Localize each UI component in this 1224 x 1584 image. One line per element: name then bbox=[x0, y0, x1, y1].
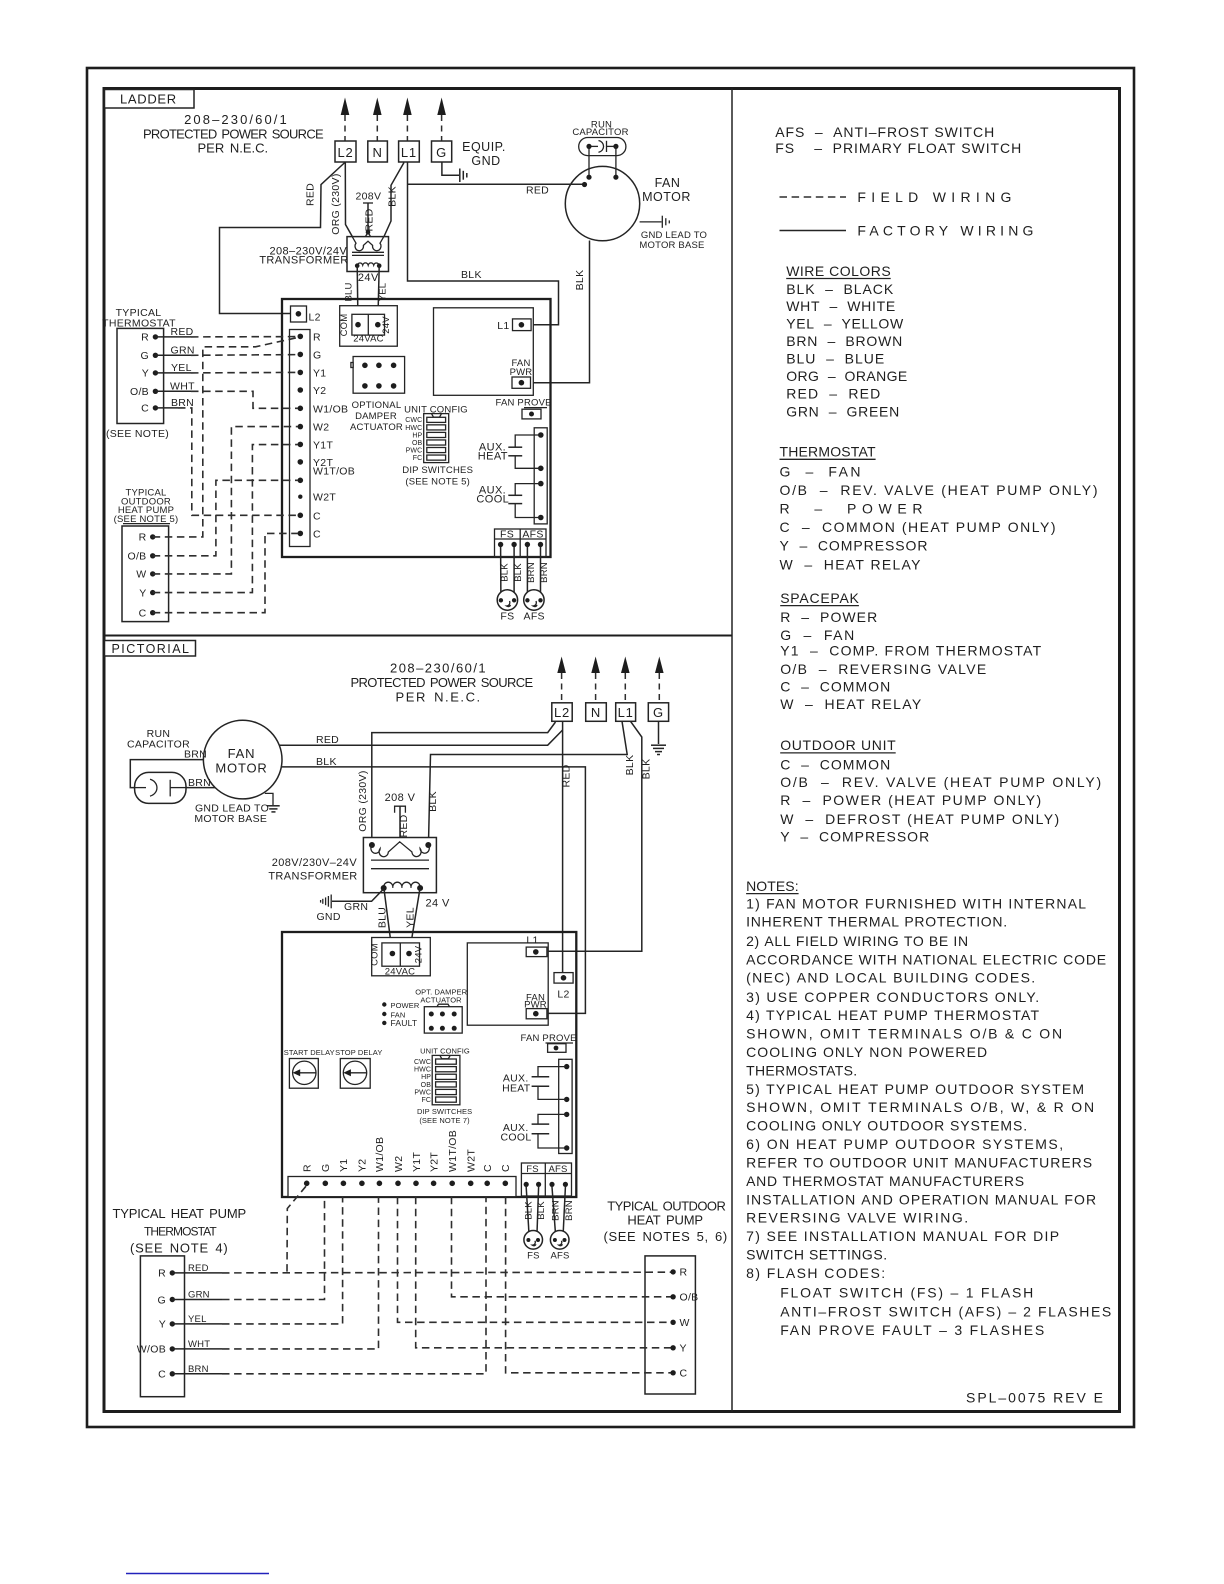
svg-text:BLU – BLUE: BLU – BLUE bbox=[786, 351, 884, 367]
wire YEL transformer to 24VAC 24V bbox=[378, 266, 379, 325]
inner border frame bbox=[104, 89, 1120, 1412]
AUX. COOL label bbox=[476, 484, 509, 505]
LADDER section label box bbox=[105, 90, 195, 109]
BLK BLK BRN BRN wire labels (rotated) bbox=[499, 562, 550, 583]
thermostat terminal O/B (ladder) bbox=[130, 386, 158, 398]
board terminal Y1T (ladder) bbox=[298, 439, 334, 451]
svg-text:BLK: BLK bbox=[387, 186, 399, 207]
thermostat terminal R (ladder) bbox=[141, 332, 158, 344]
svg-text:HP: HP bbox=[421, 1074, 431, 1081]
svg-text:N: N bbox=[372, 145, 382, 160]
svg-text:3) USE COPPER CONDUCTORS ONLY.: 3) USE COPPER CONDUCTORS ONLY. bbox=[746, 989, 1039, 1005]
power feed arrow at x=345.0 bbox=[341, 98, 350, 142]
fan motor circle (pictorial) bbox=[203, 720, 282, 799]
board terminal strip (pictorial) bbox=[288, 1177, 516, 1197]
svg-text:OPTIONAL: OPTIONAL bbox=[352, 400, 402, 411]
svg-text:C – COMMON: C – COMMON bbox=[780, 679, 890, 695]
svg-text:(SEE NOTE): (SEE NOTE) bbox=[106, 428, 169, 440]
board terminal C (ladder) bbox=[298, 528, 322, 540]
svg-text:WIRE COLORS: WIRE COLORS bbox=[786, 263, 891, 279]
wire RED branch to fan motor bbox=[408, 183, 584, 185]
svg-text:C: C bbox=[500, 1164, 512, 1172]
svg-text:BRN: BRN bbox=[526, 562, 537, 583]
svg-text:R – POWER (HEAT PUMP ONLY): R – POWER (HEAT PUMP ONLY) bbox=[780, 792, 1041, 808]
board terminal W2T (ladder) bbox=[298, 492, 336, 504]
svg-text:FS: FS bbox=[526, 1164, 539, 1175]
svg-text:Y1T: Y1T bbox=[313, 439, 333, 451]
svg-text:208V/230V–24V: 208V/230V–24V bbox=[272, 857, 358, 869]
TYPICAL OUTDOOR HEAT PUMP title (ladder) bbox=[114, 488, 179, 525]
svg-text:BLK: BLK bbox=[513, 563, 524, 582]
thermostat terminal R (pictorial) bbox=[158, 1268, 175, 1280]
svg-text:BLK: BLK bbox=[641, 759, 653, 780]
float switch FS bbox=[497, 590, 517, 623]
outdoor terminal O/B (pictorial) bbox=[670, 1292, 698, 1304]
board terminal Y1T (pictorial) bbox=[411, 1152, 423, 1187]
wire G box to equipment ground bbox=[442, 163, 459, 176]
svg-text:Y1T: Y1T bbox=[411, 1152, 423, 1172]
svg-text:ORG (230V): ORG (230V) bbox=[357, 770, 369, 831]
svg-text:RED: RED bbox=[561, 764, 573, 787]
svg-text:Y: Y bbox=[159, 1319, 166, 1331]
field wire outdoor R to board R bbox=[153, 338, 298, 537]
svg-text:W1/OB: W1/OB bbox=[374, 1137, 386, 1172]
STOP DELAY dial bbox=[335, 1048, 382, 1088]
svg-text:BLK: BLK bbox=[427, 791, 439, 812]
svg-text:MOTOR: MOTOR bbox=[642, 190, 691, 204]
208V open terminal bracket bbox=[395, 806, 406, 813]
power terminal box L2 (pictorial) bbox=[552, 703, 572, 722]
svg-text:5) TYPICAL HEAT PUMP OUTDOOR S: 5) TYPICAL HEAT PUMP OUTDOOR SYSTEM bbox=[746, 1081, 1084, 1097]
svg-text:UNIT CONFIG: UNIT CONFIG bbox=[420, 1046, 470, 1055]
svg-text:BLK: BLK bbox=[524, 1201, 535, 1220]
TYPICAL HEAT PUMP THERMOSTAT title bbox=[113, 1206, 247, 1256]
svg-text:R: R bbox=[141, 332, 149, 344]
wire ORG(230V) from L2 to transformer bbox=[345, 163, 352, 237]
svg-text:G: G bbox=[320, 1164, 332, 1172]
outdoor terminal C (pictorial) bbox=[670, 1368, 687, 1380]
svg-text:STOP DELAY: STOP DELAY bbox=[335, 1048, 382, 1057]
svg-text:FS – PRIMARY FLOAT SWITCH: FS – PRIMARY FLOAT SWITCH bbox=[775, 140, 1021, 156]
wire RED motor to L2 drop (pictorial) bbox=[280, 730, 563, 745]
svg-text:G: G bbox=[158, 1294, 166, 1306]
outdoor terminal R (pictorial) bbox=[670, 1267, 687, 1279]
svg-text:R: R bbox=[139, 532, 147, 544]
svg-text:FS: FS bbox=[500, 529, 514, 541]
legend: field wiring sample bbox=[780, 196, 847, 198]
board terminal W1/OB (ladder) bbox=[298, 403, 349, 415]
POWER FAN FAULT status LEDs bbox=[382, 1001, 420, 1028]
svg-text:HWC: HWC bbox=[405, 425, 422, 432]
svg-text:RED: RED bbox=[305, 183, 317, 206]
run capacitor (pictorial) bbox=[135, 772, 186, 803]
svg-text:COOL: COOL bbox=[476, 493, 509, 505]
svg-text:6) ON HEAT PUMP OUTDOOR SYSTEM: 6) ON HEAT PUMP OUTDOOR SYSTEMS, bbox=[746, 1136, 1063, 1152]
svg-text:PICTORIAL: PICTORIAL bbox=[112, 642, 190, 656]
wire YEL to 24VAC 24V (pictorial) bbox=[409, 889, 420, 954]
svg-text:208–230/60/1: 208–230/60/1 bbox=[184, 112, 287, 127]
svg-text:W – DEFROST (HEAT PUMP ONLY): W – DEFROST (HEAT PUMP ONLY) bbox=[780, 811, 1059, 827]
svg-text:Y1: Y1 bbox=[338, 1159, 350, 1172]
board terminal W2T (pictorial) bbox=[466, 1149, 478, 1186]
svg-text:Y: Y bbox=[139, 587, 146, 599]
wire BLK motor to FAN PWR (pictorial) bbox=[282, 767, 586, 1014]
svg-text:Y2: Y2 bbox=[313, 385, 326, 397]
power feed arrow at x=377.3 bbox=[373, 98, 382, 142]
svg-text:(SEE NOTES 5, 6): (SEE NOTES 5, 6) bbox=[604, 1229, 728, 1244]
board terminal C (pictorial) bbox=[500, 1164, 512, 1186]
svg-text:W2T: W2T bbox=[466, 1149, 478, 1172]
wire BLK from L1 down to board L1 terminal bbox=[408, 163, 559, 325]
wire BLK from L1 to transformer bbox=[384, 163, 404, 237]
svg-text:R – POWER: R – POWER bbox=[780, 609, 877, 625]
svg-text:Y1: Y1 bbox=[313, 367, 326, 379]
svg-text:O/B – REVERSING VALVE: O/B – REVERSING VALVE bbox=[780, 661, 986, 677]
power terminal box G (pictorial) bbox=[648, 703, 668, 722]
svg-text:REFER TO OUTDOOR UNIT MANUFACT: REFER TO OUTDOOR UNIT MANUFACTURERS bbox=[746, 1155, 1092, 1171]
svg-text:L2: L2 bbox=[554, 705, 570, 720]
svg-text:ACTUATOR: ACTUATOR bbox=[420, 995, 462, 1004]
wire BLK L1 to board L1 terminal (pictorial) bbox=[548, 721, 642, 951]
outer border frame bbox=[87, 68, 1134, 1427]
wire RED L2 down to board L2 terminal (pictorial) bbox=[562, 721, 564, 972]
svg-text:ACTUATOR: ACTUATOR bbox=[350, 422, 403, 433]
svg-text:SPL–0075 REV E: SPL–0075 REV E bbox=[966, 1390, 1103, 1406]
FS switch wires (pictorial) bbox=[526, 1187, 538, 1239]
svg-text:Y: Y bbox=[142, 368, 149, 380]
svg-text:WHT – WHITE: WHT – WHITE bbox=[786, 298, 895, 314]
field wire BRN thermostat C to board C bbox=[155, 408, 297, 515]
outdoor terminal Y (pictorial) bbox=[670, 1343, 686, 1355]
svg-text:24VAC: 24VAC bbox=[385, 967, 415, 978]
svg-text:COM: COM bbox=[339, 314, 350, 337]
svg-text:CAPACITOR: CAPACITOR bbox=[127, 739, 190, 751]
svg-text:24VAC: 24VAC bbox=[353, 334, 383, 345]
svg-text:L1: L1 bbox=[526, 935, 538, 947]
svg-text:OUTDOOR UNIT: OUTDOOR UNIT bbox=[780, 737, 896, 753]
field wire outdoor C to board C bbox=[153, 533, 298, 612]
RED tap lead (pictorial) bbox=[399, 806, 401, 841]
svg-text:R: R bbox=[158, 1268, 166, 1280]
svg-text:COOLING ONLY OUTDOOR SYSTEMS.: COOLING ONLY OUTDOOR SYSTEMS. bbox=[746, 1118, 1027, 1134]
svg-text:C: C bbox=[313, 510, 321, 522]
svg-text:BRN: BRN bbox=[550, 1200, 561, 1221]
svg-text:G: G bbox=[313, 349, 321, 361]
svg-text:O/B: O/B bbox=[128, 551, 147, 563]
START DELAY dial bbox=[284, 1048, 335, 1088]
board terminal Y2 (pictorial) bbox=[357, 1159, 369, 1187]
DIP switch block (ladder) bbox=[424, 414, 449, 463]
board terminal Y2 (ladder) bbox=[298, 385, 327, 397]
RUN CAPACITOR label (ladder) bbox=[572, 120, 628, 139]
svg-text:BLK: BLK bbox=[499, 563, 510, 582]
svg-text:CWC: CWC bbox=[414, 1059, 431, 1066]
svg-text:208–230/60/1: 208–230/60/1 bbox=[390, 661, 486, 676]
field wire row Y: thermostat Y to board Y1; board W2 to outdoor W bbox=[172, 1197, 670, 1324]
fan relay box (pictorial) bbox=[467, 943, 548, 1025]
svg-text:R: R bbox=[313, 331, 321, 343]
svg-text:G: G bbox=[653, 705, 664, 720]
svg-text:FAN: FAN bbox=[655, 176, 681, 190]
svg-text:EQUIP.: EQUIP. bbox=[462, 140, 506, 154]
thermostat terminal Y (ladder) bbox=[142, 368, 158, 380]
outdoor terminal R (ladder) bbox=[139, 532, 156, 544]
svg-text:BLK: BLK bbox=[316, 756, 337, 768]
board terminal L1 (ladder) bbox=[497, 319, 531, 332]
svg-text:(SEE NOTE 4): (SEE NOTE 4) bbox=[130, 1241, 228, 1256]
svg-text:W1T/OB: W1T/OB bbox=[313, 466, 355, 478]
svg-text:FIELD WIRING: FIELD WIRING bbox=[857, 189, 1011, 205]
svg-text:L2: L2 bbox=[309, 312, 321, 324]
FAN PROVE terminal (pictorial) bbox=[521, 1033, 577, 1052]
svg-text:W: W bbox=[680, 1317, 690, 1329]
svg-text:BRN: BRN bbox=[539, 562, 550, 583]
FAN MOTOR label (ladder) bbox=[642, 176, 691, 204]
svg-text:Y2: Y2 bbox=[357, 1159, 369, 1172]
svg-text:HWC: HWC bbox=[414, 1067, 431, 1074]
field wire RED thermostat R to board R bbox=[155, 336, 297, 338]
FAN PWR terminal (pictorial) bbox=[524, 992, 547, 1019]
svg-text:FS: FS bbox=[527, 1251, 540, 1262]
svg-text:PROTECTED POWER SOURCE: PROTECTED POWER SOURCE bbox=[351, 675, 534, 690]
board terminal R (ladder) bbox=[298, 331, 322, 343]
svg-text:AFS: AFS bbox=[524, 611, 545, 623]
svg-text:N: N bbox=[591, 705, 601, 720]
svg-text:O/B: O/B bbox=[680, 1292, 699, 1304]
svg-text:24V: 24V bbox=[358, 272, 379, 284]
power feed arrow at x=659.3 (pictorial) bbox=[655, 657, 664, 703]
PICTORIAL section label box bbox=[105, 641, 196, 657]
svg-text:HEAT: HEAT bbox=[502, 1083, 531, 1095]
junction dot at motor RED terminal bbox=[582, 182, 587, 187]
svg-text:W2T: W2T bbox=[313, 492, 336, 504]
board terminal C (ladder) bbox=[298, 510, 322, 522]
svg-text:THERMOSTAT: THERMOSTAT bbox=[144, 1225, 217, 1239]
board terminal strip (ladder) bbox=[290, 330, 311, 547]
svg-text:Y – COMPRESSOR: Y – COMPRESSOR bbox=[780, 828, 929, 844]
board terminal G (ladder) bbox=[298, 349, 322, 361]
svg-text:SWITCH SETTINGS.: SWITCH SETTINGS. bbox=[746, 1247, 887, 1263]
svg-text:RED: RED bbox=[526, 185, 549, 197]
svg-text:L2: L2 bbox=[557, 989, 569, 1001]
power terminal box N (pictorial) bbox=[586, 703, 607, 722]
svg-text:7) SEE INSTALLATION MANUAL FOR: 7) SEE INSTALLATION MANUAL FOR DIP bbox=[746, 1228, 1059, 1244]
svg-text:FAN PROVE: FAN PROVE bbox=[496, 398, 552, 409]
svg-text:INHERENT THERMAL PROTECTION.: INHERENT THERMAL PROTECTION. bbox=[746, 914, 1007, 930]
AUX COOL contact bbox=[508, 484, 541, 518]
AUX HEAT contact (pictorial) bbox=[532, 1067, 567, 1100]
board terminal G (pictorial) bbox=[320, 1164, 332, 1187]
svg-text:HEAT: HEAT bbox=[478, 450, 508, 462]
svg-text:BLK: BLK bbox=[536, 1201, 547, 1220]
board terminal Y2T (ladder) bbox=[298, 457, 334, 469]
anti-frost switch AFS bbox=[524, 590, 545, 623]
outdoor heat pump box (ladder) bbox=[122, 526, 169, 622]
svg-text:CAPACITOR: CAPACITOR bbox=[572, 127, 628, 138]
svg-text:BRN: BRN bbox=[564, 1200, 575, 1221]
AFS switch wires (pictorial) bbox=[552, 1187, 565, 1239]
power feed arrow at x=595.6 (pictorial) bbox=[591, 657, 600, 703]
OPT. DAMPER ACTUATOR label bbox=[415, 987, 467, 1004]
svg-text:O/B – REV. VALVE (HEAT PUMP: O/B – REV. VALVE (HEAT PUMP ONLY) bbox=[780, 774, 1101, 790]
svg-text:BLK: BLK bbox=[624, 755, 636, 776]
svg-text:HEAT PUMP: HEAT PUMP bbox=[627, 1213, 703, 1228]
outdoor terminal O/B (ladder) bbox=[128, 551, 156, 563]
FAN PWR terminal (ladder) bbox=[510, 358, 533, 389]
svg-text:FAN PROVE FAULT – 3 FLASHES: FAN PROVE FAULT – 3 FLASHES bbox=[780, 1322, 1044, 1338]
svg-text:NOTES:: NOTES: bbox=[746, 878, 799, 894]
svg-text:AFS: AFS bbox=[550, 1251, 569, 1262]
svg-text:OB: OB bbox=[412, 440, 423, 447]
svg-text:G: G bbox=[436, 145, 447, 160]
svg-text:24V: 24V bbox=[414, 945, 425, 963]
svg-text:AND THERMOSTAT MANUFACTURERS: AND THERMOSTAT MANUFACTURERS bbox=[746, 1173, 1024, 1189]
svg-text:ACCORDANCE WITH NATIONAL ELECT: ACCORDANCE WITH NATIONAL ELECTRIC CODE bbox=[746, 952, 1106, 968]
outdoor terminal W (pictorial) bbox=[670, 1317, 689, 1329]
power terminal box N (ladder) bbox=[368, 141, 388, 162]
svg-text:BLU: BLU bbox=[377, 907, 389, 928]
power terminal box L2 (ladder) bbox=[335, 141, 356, 162]
svg-text:CWC: CWC bbox=[405, 417, 422, 424]
board terminal Y1 (pictorial) bbox=[338, 1159, 350, 1187]
svg-text:Y1 – COMP. FROM THERMOSTAT: Y1 – COMP. FROM THERMOSTAT bbox=[780, 643, 1041, 659]
svg-text:MOTOR: MOTOR bbox=[215, 761, 267, 776]
field wire row W/OB: thermostat W/OB to board W1/OB; board Y1T to outdoor Y bbox=[172, 1197, 670, 1349]
svg-text:W – HEAT RELAY: W – HEAT RELAY bbox=[780, 557, 922, 573]
svg-text:COOLING ONLY NON POWERED: COOLING ONLY NON POWERED bbox=[746, 1044, 987, 1060]
board terminal C (pictorial) bbox=[482, 1164, 494, 1186]
svg-text:O/B: O/B bbox=[130, 386, 149, 398]
board terminal W1/OB (pictorial) bbox=[374, 1137, 386, 1186]
power feed arrow at x=407.4 bbox=[403, 98, 412, 142]
svg-text:PWC: PWC bbox=[406, 447, 423, 454]
svg-text:G: G bbox=[141, 350, 149, 362]
svg-text:POWER: POWER bbox=[391, 1001, 420, 1010]
svg-text:PWC: PWC bbox=[414, 1089, 431, 1096]
svg-text:THERMOSTATS.: THERMOSTATS. bbox=[746, 1062, 857, 1078]
field wire outdoor O/B to board W1T/OB bbox=[153, 480, 298, 556]
transformer 208V/230V-24V (pictorial) bbox=[363, 838, 436, 893]
svg-text:C – COMMON: C – COMMON bbox=[780, 756, 890, 772]
svg-text:YEL: YEL bbox=[404, 907, 416, 928]
svg-text:COM: COM bbox=[370, 943, 381, 966]
field wire YEL thermostat Y to board Y1 bbox=[155, 371, 297, 374]
AFS switch wires bbox=[527, 547, 540, 599]
svg-text:L1: L1 bbox=[497, 320, 509, 332]
svg-text:BLK – BLACK: BLK – BLACK bbox=[786, 281, 894, 297]
svg-text:RED: RED bbox=[364, 208, 376, 231]
svg-text:FC: FC bbox=[413, 455, 423, 462]
BRN wire capacitor to motor bbox=[186, 787, 215, 789]
svg-text:RED: RED bbox=[398, 814, 410, 837]
power terminal box G (ladder) bbox=[432, 141, 452, 162]
svg-text:RED – RED: RED – RED bbox=[786, 386, 880, 402]
svg-text:OB: OB bbox=[421, 1082, 432, 1089]
svg-text:W/OB: W/OB bbox=[137, 1344, 166, 1356]
TYPICAL THERMOSTAT title bbox=[102, 307, 176, 330]
transformer label (pictorial) bbox=[268, 857, 357, 883]
GRN ground wire (pictorial) bbox=[321, 889, 384, 909]
svg-text:FLOAT SWITCH (FS) – 1 FLASH: FLOAT SWITCH (FS) – 1 FLASH bbox=[780, 1284, 1033, 1300]
svg-text:DIP SWITCHES: DIP SWITCHES bbox=[417, 1107, 472, 1116]
svg-text:HP: HP bbox=[412, 432, 422, 439]
svg-text:L1: L1 bbox=[401, 145, 417, 160]
thermostat box (ladder) bbox=[117, 328, 164, 423]
motor ground lead bbox=[640, 216, 670, 228]
wire RED from L2 to board L2 terminal bbox=[220, 163, 345, 314]
AUX. COOL label (pictorial) bbox=[501, 1122, 532, 1144]
svg-text:BLK: BLK bbox=[461, 269, 482, 281]
svg-text:ORG (230V): ORG (230V) bbox=[330, 173, 342, 234]
board terminal L2 (pictorial) bbox=[554, 973, 573, 1001]
wire BLK L1 to transformer (pictorial) bbox=[429, 721, 628, 843]
svg-text:Y – COMPRESSOR: Y – COMPRESSOR bbox=[780, 537, 928, 553]
motor ground (pictorial) bbox=[265, 793, 280, 812]
svg-text:O/B – REV. VALVE (HEAT PUMP: O/B – REV. VALVE (HEAT PUMP ONLY) bbox=[780, 482, 1098, 498]
thermostat terminal C (pictorial) bbox=[158, 1369, 175, 1381]
OPTIONAL DAMPER ACTUATOR label bbox=[350, 400, 403, 433]
DIP SWITCHES caption (pictorial) bbox=[417, 1107, 472, 1125]
ladder/pictorial divider line bbox=[104, 635, 732, 637]
svg-text:C: C bbox=[139, 608, 147, 620]
svg-text:W: W bbox=[136, 569, 146, 581]
board terminal W1T/OB (pictorial) bbox=[447, 1130, 459, 1186]
ground from G box (pictorial) bbox=[651, 721, 666, 754]
field wire row G: thermostat G to board G; board W1T/OB to outdoor O/B bbox=[172, 1197, 670, 1300]
footer hyperlink underline bbox=[126, 1573, 269, 1575]
TYPICAL OUTDOOR HEAT PUMP title (pictorial) bbox=[604, 1199, 728, 1245]
board terminal W2 (pictorial) bbox=[393, 1156, 405, 1186]
equipment ground symbol bbox=[460, 169, 467, 183]
thermostat terminal W/OB (pictorial) bbox=[137, 1344, 175, 1356]
GND LEAD TO MOTOR BASE label (ladder) bbox=[639, 230, 707, 251]
svg-text:1) FAN MOTOR FURNISHED WITH IN: 1) FAN MOTOR FURNISHED WITH INTERNAL bbox=[746, 895, 1086, 911]
wire BLK from fan motor to FAN PWR terminal bbox=[524, 241, 590, 383]
svg-text:W2: W2 bbox=[313, 422, 329, 434]
transformer label (ladder) bbox=[259, 245, 348, 266]
FAN PROVE terminal (ladder) bbox=[496, 398, 552, 419]
svg-text:ORG – ORANGE: ORG – ORANGE bbox=[786, 368, 907, 384]
outdoor heat pump box (pictorial) bbox=[645, 1256, 695, 1394]
FAN MOTOR label (pictorial) bbox=[215, 746, 267, 776]
svg-text:4) TYPICAL HEAT PUMP THERMOSTA: 4) TYPICAL HEAT PUMP THERMOSTAT bbox=[746, 1007, 1039, 1023]
pictorial title: protected power source bbox=[351, 661, 534, 705]
svg-text:DIP SWITCHES: DIP SWITCHES bbox=[402, 465, 473, 476]
svg-text:GND: GND bbox=[471, 154, 500, 168]
legend: factory wiring sample bbox=[780, 230, 847, 232]
svg-text:THERMOSTAT: THERMOSTAT bbox=[780, 444, 876, 460]
svg-text:COOL: COOL bbox=[501, 1132, 532, 1144]
svg-text:FS: FS bbox=[500, 611, 514, 623]
wire ORG L2 to transformer (pictorial) bbox=[372, 722, 556, 843]
damper actuator connector (pictorial) bbox=[424, 1004, 462, 1033]
svg-text:TRANSFORMER: TRANSFORMER bbox=[259, 255, 348, 267]
thermostat terminal G (ladder) bbox=[141, 350, 159, 362]
svg-text:PER N.E.C.: PER N.E.C. bbox=[396, 690, 481, 705]
svg-text:PROTECTED POWER SOURCE: PROTECTED POWER SOURCE bbox=[143, 127, 324, 142]
anti-frost switch AFS (pictorial) bbox=[550, 1231, 569, 1262]
board terminal L1 (pictorial) bbox=[526, 935, 547, 957]
outdoor terminal C (ladder) bbox=[139, 608, 156, 620]
optional damper actuator connector (ladder) bbox=[351, 357, 405, 394]
svg-text:(SEE NOTE 7): (SEE NOTE 7) bbox=[419, 1116, 470, 1125]
svg-text:R: R bbox=[680, 1267, 688, 1279]
FS/AFS terminal block (pictorial) bbox=[521, 1163, 571, 1196]
svg-text:W1/OB: W1/OB bbox=[313, 403, 348, 415]
svg-text:AFS: AFS bbox=[522, 529, 543, 541]
board terminal W1T/OB (ladder) bbox=[298, 466, 356, 484]
power terminal box L1 (pictorial) bbox=[616, 703, 636, 722]
